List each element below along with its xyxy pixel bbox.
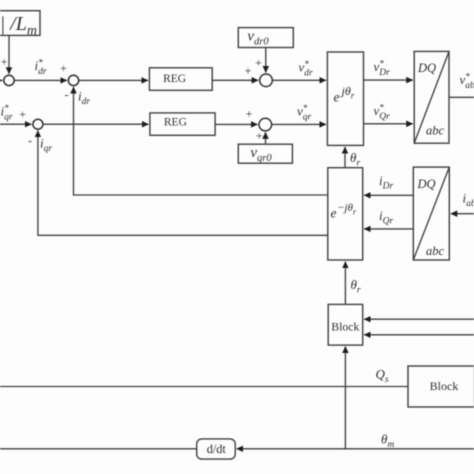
svg-text:Qs: Qs	[376, 367, 389, 386]
block REG2	[150, 113, 215, 135]
wire vdr0 down to S4	[265, 48, 267, 73]
svg-text:DQ: DQ	[417, 61, 436, 75]
svg-text:+: +	[255, 56, 262, 70]
wire vqr0 up into S5	[265, 132, 267, 144]
block e^{-j theta r}	[328, 168, 363, 260]
wire S2 to REG1	[79, 79, 148, 81]
summing junction S2	[68, 75, 78, 85]
svg-text:v*Qr: v*Qr	[374, 103, 391, 123]
wire S4 to ejt block	[272, 79, 326, 81]
feedback wire idr: e-jt left to S2 bottom	[74, 87, 328, 195]
svg-text:d/dt: d/dt	[207, 442, 227, 456]
summing junction S5	[259, 118, 272, 131]
block DQ/abc voltage	[414, 51, 449, 143]
diagonal of DQ2	[413, 167, 449, 260]
diagonal of DQ1	[414, 51, 449, 143]
wire theta m from right edge to d/dt	[237, 448, 474, 450]
wire iabc input from right edge into DQ2	[451, 213, 474, 215]
svg-text:Block: Block	[331, 319, 359, 333]
wire REG1 to S4	[212, 79, 258, 81]
svg-text:+: +	[60, 61, 67, 75]
svg-text:+: +	[245, 64, 252, 78]
wire theta r from e-jt up into ejt	[344, 147, 346, 168]
svg-text:idr: idr	[78, 89, 90, 108]
summing junction S1	[4, 75, 14, 85]
svg-text:i*qr: i*qr	[1, 103, 13, 123]
svg-text:REG: REG	[164, 117, 187, 129]
wire S5 to ejt block	[272, 123, 326, 125]
block DQ/abc current	[413, 167, 449, 260]
block vdr0	[238, 28, 293, 48]
block d/dt	[197, 439, 236, 459]
wire arrow into S1 from left edge	[0, 79, 2, 81]
block Block1 (angle calc)	[328, 304, 363, 345]
wire ejt to DQ1 (v*Qr)	[364, 123, 413, 125]
svg-text:θr: θr	[350, 150, 360, 169]
wire d/dt output to left edge	[0, 448, 197, 450]
svg-text:iDr: iDr	[379, 173, 393, 192]
wire S1 to S2	[14, 79, 67, 81]
block REG1	[149, 68, 212, 91]
svg-text:abc: abc	[426, 124, 445, 138]
svg-text:v*Dr: v*Dr	[374, 59, 391, 79]
svg-text:-: -	[65, 88, 69, 102]
svg-text:v*dr: v*dr	[299, 59, 314, 79]
svg-text:REG: REG	[163, 73, 186, 85]
wire input 1 into Block1 right side	[364, 318, 474, 320]
block vqr0	[238, 144, 292, 163]
svg-text:+: +	[19, 107, 26, 121]
svg-text:θr: θr	[351, 277, 361, 296]
svg-text:abc: abc	[426, 244, 445, 258]
wire DQ1 output v*abc to right edge	[449, 96, 474, 98]
wire theta m branch up into Block1 bottom	[344, 347, 346, 449]
svg-text:-: -	[28, 134, 32, 148]
svg-text:iqr: iqr	[40, 136, 52, 155]
svg-text:v*qr: v*qr	[297, 103, 312, 123]
row 2: wire from left edge into S3	[0, 123, 31, 125]
svg-text:θm: θm	[381, 432, 394, 451]
summing junction S4	[260, 74, 273, 87]
wire REG2 to S5	[215, 123, 257, 125]
block e^{j theta r}	[327, 52, 363, 145]
svg-text:i*dr: i*dr	[35, 58, 47, 78]
feedback wire iqr: e-jt left to S3 bottom	[38, 131, 328, 236]
svg-text:+: +	[246, 107, 253, 121]
wire theta r from Block1 up into e-jt	[344, 262, 346, 305]
svg-text:+: +	[1, 55, 8, 69]
wire S3 to REG2	[43, 123, 149, 125]
wire DQ2 to e-jt (iDr)	[364, 194, 413, 196]
svg-text:DQ: DQ	[417, 177, 436, 191]
block Block2 (power calc)	[408, 366, 474, 407]
wire from |psi|/Lm down to sum S1	[8, 35, 10, 73]
wire input 2 into Block1 right side	[364, 334, 474, 336]
svg-text:v*ab: v*ab	[460, 72, 474, 92]
svg-text:Block: Block	[430, 379, 459, 393]
block |psi|/Lm	[0, 11, 40, 36]
wire Qs from left edge to Block2	[0, 386, 408, 388]
summing junction S3	[33, 119, 43, 129]
svg-text:iQr: iQr	[379, 208, 393, 227]
svg-text:iab: iab	[463, 191, 474, 210]
svg-text:+: +	[256, 129, 263, 143]
wire DQ2 to e-jt (iQr)	[364, 228, 413, 230]
wire ejt to DQ1 (v*Dr)	[364, 79, 413, 81]
